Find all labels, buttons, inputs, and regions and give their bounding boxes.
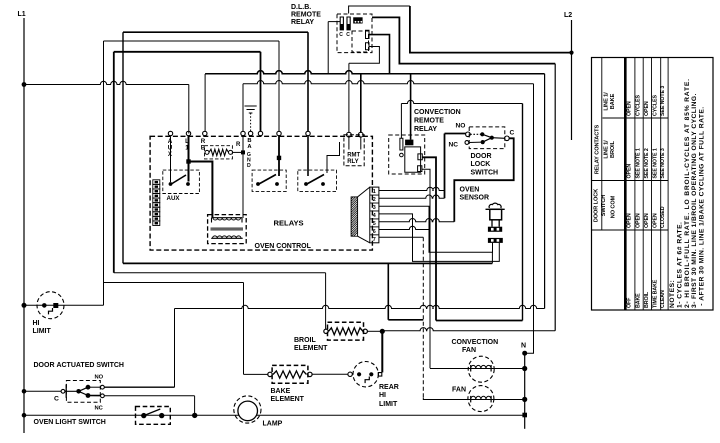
svg-text:LIMIT: LIMIT	[379, 401, 398, 408]
wire relay3 out	[327, 142, 340, 173]
svg-text:OFF: OFF	[627, 297, 633, 308]
wire dashed drop to fan	[423, 237, 524, 399]
svg-text:1- CYCLES AT 6# RATE.: 1- CYCLES AT 6# RATE.	[676, 222, 683, 308]
wire CONV coil feed bold	[410, 74, 412, 140]
sensor block2	[488, 238, 503, 243]
svg-text:SEE NOTE 1: SEE NOTE 1	[635, 148, 641, 178]
node L2 junction	[569, 51, 573, 55]
label OVEN SENSOR	[460, 187, 490, 202]
svg-text:OPEN: OPEN	[653, 213, 659, 228]
wire N stub	[522, 331, 533, 356]
wire DLB out2 to rmtrly t1	[349, 47, 380, 133]
label AUX	[167, 195, 181, 202]
fan FAN	[468, 386, 494, 412]
label REAR HI LIMIT	[379, 384, 399, 408]
svg-text:ELEMENT: ELEMENT	[271, 396, 305, 403]
node L1 junction at hi-limit bus	[22, 82, 27, 87]
svg-text:RELAY CONTACTS: RELAY CONTACTS	[594, 125, 600, 175]
svg-text:SEE NOTE 3: SEE NOTE 3	[660, 86, 666, 116]
switch oven light contacts	[141, 409, 164, 418]
wire L1 to transformer	[189, 162, 213, 219]
svg-text:RLY: RLY	[347, 159, 358, 165]
heater BAKE ELEMENT box	[272, 365, 308, 383]
relay DLB out pin 2	[366, 43, 370, 50]
label DOOR ACTUATED SWITCH	[34, 362, 124, 369]
wire pin7	[379, 236, 423, 238]
wire L1 bold inside	[188, 136, 190, 161]
relay DLB outer box	[337, 14, 372, 53]
connector body	[351, 187, 370, 243]
svg-text:CYCLES: CYCLES	[635, 95, 641, 116]
svg-text:RELAY: RELAY	[414, 126, 437, 133]
label NC	[449, 142, 459, 149]
svg-text:L2: L2	[564, 12, 572, 19]
svg-text:D: D	[247, 163, 251, 169]
relay CONV coil	[405, 140, 413, 146]
svg-text:C: C	[346, 32, 350, 38]
wire B-line to broil	[114, 273, 326, 329]
relay CONV out pin2	[418, 166, 422, 172]
label N	[521, 343, 526, 350]
svg-text:2- HI BROIL-FULL RATE. LO BROI: 2- HI BROIL-FULL RATE. LO BROIL-CYCLES A…	[684, 78, 691, 308]
label BROIL ELEMENT	[294, 337, 328, 352]
node junction relay2	[277, 156, 281, 160]
label CONVECTION FAN	[452, 339, 499, 354]
wire junction R down to transformer	[242, 136, 244, 218]
wire C-line sensor link	[491, 252, 493, 263]
wire pin1	[379, 169, 445, 190]
svg-text:OPEN: OPEN	[644, 101, 650, 116]
svg-text:NC: NC	[449, 142, 459, 149]
svg-text:ELEMENT: ELEMENT	[294, 345, 328, 352]
svg-text:6: 6	[373, 229, 376, 235]
svg-text:SWITCH: SWITCH	[471, 170, 499, 177]
svg-text:HI: HI	[33, 320, 40, 327]
svg-text:REAR: REAR	[379, 384, 399, 391]
svg-text:3: 3	[373, 205, 376, 211]
relay AUX box	[163, 170, 200, 193]
svg-text:OPEN: OPEN	[627, 101, 633, 116]
transformer secondary	[211, 236, 243, 238]
wire beta bold	[436, 320, 523, 322]
wire bus74 long	[205, 71, 544, 309]
relay RMT RLY box	[344, 135, 364, 166]
label terminal RB	[201, 138, 206, 151]
wire C-line bold	[123, 262, 492, 264]
switch HI LIMIT	[37, 292, 64, 319]
svg-text:3- FIRST 30 MIN. LINE 1/BROIL: 3- FIRST 30 MIN. LINE 1/BROIL OPERATING …	[691, 93, 698, 308]
svg-text:OVEN: OVEN	[460, 187, 480, 194]
svg-text:D.L.B.: D.L.B.	[291, 4, 311, 11]
label terminal AUX	[168, 138, 173, 158]
node broil junction	[380, 329, 385, 334]
svg-text:OPEN: OPEN	[635, 213, 641, 228]
label RMT RLY	[347, 153, 360, 166]
svg-text:C: C	[54, 396, 59, 403]
svg-text:LOCK: LOCK	[471, 161, 491, 168]
label GND	[247, 152, 251, 169]
wire L1 bus to oven control L1 terminal	[24, 81, 189, 133]
svg-text:NO COM: NO COM	[611, 195, 617, 218]
node L1 dot bottom	[22, 413, 27, 418]
svg-text:BROIL: BROIL	[644, 291, 650, 308]
relay RMT RLY terminals	[347, 132, 364, 149]
node L1 label	[18, 11, 26, 18]
node L1 dot door sw	[22, 389, 27, 394]
node junction R	[241, 150, 245, 154]
relay DLB label	[291, 4, 321, 26]
svg-text:5: 5	[373, 221, 376, 227]
svg-text:SWITCH: SWITCH	[601, 195, 607, 217]
relay CONV box	[389, 135, 425, 174]
wire door sw NC line	[104, 396, 194, 415]
wire C bold	[454, 138, 513, 221]
svg-text:DOOR: DOOR	[471, 153, 492, 160]
resistor box	[205, 146, 233, 159]
svg-text:BAKE: BAKE	[271, 388, 291, 395]
svg-text:CLEAN: CLEAN	[660, 290, 666, 308]
svg-text:FAN: FAN	[462, 347, 476, 354]
relay DLB pin 2	[346, 17, 350, 38]
switch DOOR LOCK contacts	[465, 132, 505, 144]
svg-text:OPEN: OPEN	[644, 213, 650, 228]
node L1 junction at hi-limit wire	[22, 303, 27, 308]
connector strip left	[153, 180, 160, 226]
svg-text:RELAYS: RELAYS	[274, 219, 304, 228]
svg-text:LAMP: LAMP	[263, 421, 283, 428]
svg-text:TIME BAKE: TIME BAKE	[653, 279, 659, 308]
node lamp junction	[192, 413, 197, 418]
svg-text:FAN: FAN	[452, 387, 466, 394]
label FAN	[452, 387, 466, 394]
wire bus2 to terminal relay2	[104, 41, 280, 131]
svg-text:LINE 1/: LINE 1/	[604, 140, 610, 159]
svg-text:LIMIT: LIMIT	[33, 328, 52, 335]
wire door sw NO line	[104, 309, 174, 388]
wire left vertical B bold	[113, 52, 115, 273]
wire sensor A	[379, 206, 493, 252]
wire conv fan feed	[430, 368, 525, 370]
svg-text:HI: HI	[379, 392, 386, 399]
svg-text:DOOR ACTUATED SWITCH: DOOR ACTUATED SWITCH	[34, 362, 124, 369]
switch door actuated contacts	[65, 385, 104, 398]
svg-text:NC: NC	[95, 406, 104, 412]
relay DLB coil	[353, 17, 362, 23]
wire bake feed	[244, 283, 268, 375]
wire L1 to door sw C	[24, 390, 61, 392]
relay CONV out pin1	[418, 154, 422, 160]
lamp LAMP	[234, 396, 261, 423]
svg-text:LINE 1/: LINE 1/	[604, 92, 610, 111]
label RELAYS	[274, 219, 304, 228]
svg-text:N: N	[521, 343, 526, 350]
relay DLB out pin 1	[366, 30, 370, 38]
label NO	[456, 123, 466, 130]
switch DOOR LOCK box	[469, 127, 505, 149]
label DOOR LOCK SWITCH	[471, 153, 499, 177]
wire terminal7 bold	[278, 136, 280, 158]
node oven control terminals	[168, 131, 310, 135]
node C terminal	[505, 136, 510, 141]
node junction L1	[186, 159, 190, 163]
relay3 contacts	[304, 136, 325, 186]
wire N vertical	[524, 353, 526, 429]
wire L1 to aux contact	[188, 162, 190, 182]
svg-text:AUX: AUX	[167, 195, 181, 202]
svg-text:RMT: RMT	[347, 153, 360, 159]
fan CONVECTION FAN	[468, 356, 494, 382]
wire bus3 bold to terminal L1-2	[114, 52, 261, 132]
svg-text:OPEN: OPEN	[627, 213, 633, 228]
switch OVEN LIGHT box	[136, 407, 171, 425]
wire resistor to junction	[233, 151, 244, 153]
svg-text:C: C	[510, 130, 515, 137]
svg-text:NO: NO	[456, 123, 466, 130]
wire A-line right	[104, 282, 244, 284]
label NO door sw	[95, 374, 104, 380]
svg-text:NOTES:: NOTES:	[669, 280, 676, 308]
wire NO-switch line	[175, 305, 545, 308]
svg-text:OVEN CONTROL: OVEN CONTROL	[255, 243, 312, 250]
wire pin5	[379, 219, 454, 222]
relay AUX contacts	[169, 136, 190, 186]
relay CONV left pin	[400, 138, 404, 157]
wire CONV out2	[422, 169, 430, 368]
wire alpha bold	[388, 263, 423, 319]
label terminal R	[236, 142, 241, 148]
sensor block1	[488, 227, 502, 232]
wire E-line terminal4	[243, 81, 534, 331]
svg-text:OVEN LIGHT SWITCH: OVEN LIGHT SWITCH	[34, 419, 106, 426]
relay2 contacts	[256, 158, 279, 186]
node L2 label	[564, 12, 572, 19]
wire left vertical A	[103, 41, 105, 283]
svg-text:R: R	[236, 142, 241, 148]
relay3 box	[298, 170, 337, 191]
wire 522 vertical	[522, 104, 524, 321]
transformer primary	[212, 218, 243, 223]
switch door actuated box	[66, 381, 100, 403]
svg-text:BAKE: BAKE	[610, 93, 616, 109]
wire bottom line	[24, 414, 525, 416]
wire DLB right side bold to 555 drop	[372, 17, 555, 330]
wire L1 vertical drop	[23, 18, 25, 433]
svg-text:CYCLES: CYCLES	[653, 95, 659, 116]
label OVEN CONTROL	[255, 243, 312, 250]
svg-text:BROIL: BROIL	[610, 140, 616, 158]
label OVEN LIGHT SWITCH	[34, 419, 106, 426]
svg-text:BAKE: BAKE	[635, 293, 641, 308]
svg-text:SEE NOTE 1: SEE NOTE 1	[653, 148, 659, 178]
svg-text:CONVECTION: CONVECTION	[414, 109, 461, 116]
switch REAR HI LIMIT	[348, 362, 382, 387]
wire DLB left pin feed	[328, 22, 340, 74]
heater BROIL ELEMENT	[324, 328, 382, 335]
table relay contacts chart	[592, 58, 714, 311]
board OVEN CONTROL box	[150, 136, 372, 250]
transformer core	[211, 228, 244, 230]
svg-text:CONVECTION: CONVECTION	[452, 339, 499, 346]
sensor dome	[486, 203, 505, 209]
svg-text:7: 7	[373, 237, 376, 243]
connector pins 1-7	[370, 187, 379, 243]
wire broil to rear hi limit	[381, 331, 383, 372]
label terminal BA	[247, 138, 252, 150]
svg-text:4: 4	[373, 213, 376, 219]
svg-text:OPEN: OPEN	[627, 164, 633, 179]
wire hi limit	[24, 283, 104, 306]
wire CONV left pin up and right	[401, 100, 522, 138]
wire DLB relay top to L2	[349, 6, 572, 53]
svg-text:REMOTE: REMOTE	[414, 118, 444, 125]
label C doorlock	[510, 130, 515, 137]
node N dots	[522, 366, 527, 417]
resistor element	[205, 149, 233, 155]
svg-text:NO: NO	[95, 374, 104, 380]
wire left vertical C	[122, 32, 124, 263]
label NC door sw	[95, 406, 104, 412]
svg-text:SEE NOTE 3: SEE NOTE 3	[660, 148, 666, 178]
wire NO bold	[445, 134, 466, 199]
svg-text:CLOSED: CLOSED	[660, 206, 666, 228]
wire CONV out1 bold	[422, 157, 436, 320]
svg-text:REMOTE: REMOTE	[291, 12, 321, 19]
wire DLB out1 to bus74	[369, 35, 390, 74]
heater BAKE ELEMENT	[268, 371, 348, 378]
wire bus1 to terminal BR	[123, 32, 308, 131]
wire L2 vertical	[571, 20, 573, 140]
svg-text:- AFTER 30 MIN. LINE 1/BAKE CY: - AFTER 30 MIN. LINE 1/BAKE CYCLING AT F…	[699, 106, 706, 308]
svg-text:2: 2	[373, 197, 376, 203]
wire pin6	[379, 226, 430, 229]
ground symbol above BA	[245, 106, 257, 131]
svg-text:DOOR LOCK: DOOR LOCK	[593, 189, 599, 222]
svg-text:BROIL: BROIL	[294, 337, 317, 344]
relay CONV inner box	[405, 147, 421, 172]
svg-text:SENSOR: SENSOR	[460, 195, 490, 202]
svg-text:C: C	[339, 32, 343, 38]
heater BROIL ELEMENT box	[328, 322, 364, 340]
wire pin2	[379, 195, 445, 198]
label HI LIMIT	[33, 320, 52, 335]
svg-text:A: A	[247, 144, 252, 150]
relay2 box	[252, 170, 286, 191]
svg-text:SEE NOTE 2: SEE NOTE 2	[644, 148, 650, 178]
relay DLB inner box	[352, 31, 369, 52]
wire rmtrly t2 drop	[360, 74, 362, 132]
relay DLB pin 1	[339, 17, 343, 38]
sensor body	[490, 209, 502, 226]
label LAMP	[263, 421, 283, 428]
label terminal L1	[185, 138, 189, 151]
wire sensor B	[379, 214, 499, 262]
label BAKE ELEMENT	[271, 388, 305, 403]
node C door sw	[54, 384, 66, 402]
svg-text:L1: L1	[18, 11, 26, 18]
wire broil-N line	[382, 328, 555, 331]
svg-text:1: 1	[373, 189, 376, 195]
relay CONV label	[414, 109, 461, 133]
svg-text:RELAY: RELAY	[291, 19, 314, 26]
transformer box	[208, 215, 247, 244]
